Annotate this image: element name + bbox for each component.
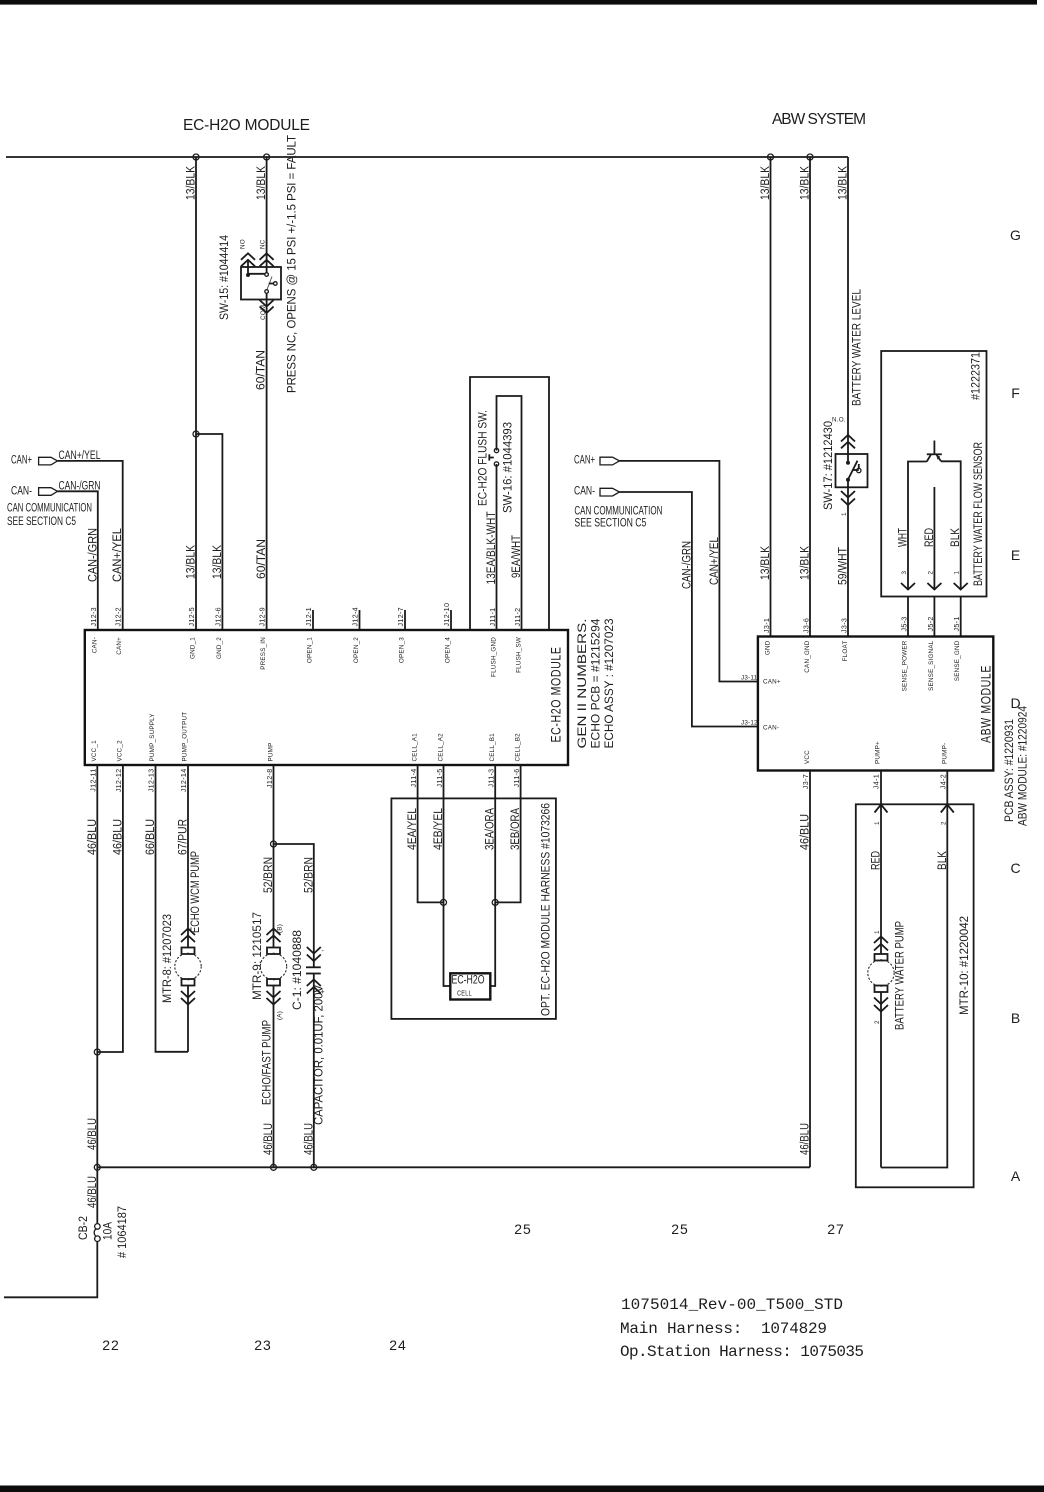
svg-text:CAN-: CAN- bbox=[763, 725, 779, 732]
svg-text:SW-16: #1044393: SW-16: #1044393 bbox=[503, 422, 515, 513]
SW-15 blade bbox=[267, 277, 272, 290]
svg-text:CAN COMMUNICATION: CAN COMMUNICATION bbox=[574, 506, 662, 518]
pump connector arrows bbox=[875, 805, 888, 813]
svg-text:EC-H2O: EC-H2O bbox=[452, 975, 485, 987]
svg-text:PCB ASSY: #1220931: PCB ASSY: #1220931 bbox=[1004, 719, 1016, 822]
wire 59/WHT SW-17 to ABW FLOAT bbox=[847, 487, 849, 636]
SW-15 upper contact circle bbox=[266, 267, 268, 273]
svg-text:52/BRN: 52/BRN bbox=[263, 857, 275, 893]
svg-text:3: 3 bbox=[901, 571, 908, 575]
svg-text:FLOAT: FLOAT bbox=[842, 641, 849, 662]
svg-text:BATTERY WATER PUMP: BATTERY WATER PUMP bbox=[895, 921, 907, 1030]
svg-text:27: 27 bbox=[827, 1221, 845, 1237]
wire CELL_A1 4EA/YEL bbox=[418, 765, 444, 902]
wire 60/TAN PRESS_IN (x=266.6) rail to SW-15 bbox=[266, 157, 268, 267]
svg-text:1075014_Rev-00_T500_STD: 1075014_Rev-00_T500_STD bbox=[621, 1296, 843, 1314]
motor MTR-10 symbol bbox=[875, 954, 888, 961]
svg-text:J4-2: J4-2 bbox=[938, 774, 947, 789]
svg-text:VCC_2: VCC_2 bbox=[117, 740, 124, 762]
stub wire pin J12-4 bbox=[359, 610, 361, 630]
svg-text:J12-10: J12-10 bbox=[442, 603, 451, 627]
svg-text:ECHO/FAST PUMP: ECHO/FAST PUMP bbox=[262, 1020, 274, 1105]
SW-17 lower chevrons bbox=[841, 491, 855, 505]
EC-H2O module box bbox=[85, 630, 568, 765]
svg-text:SENSE_POWER: SENSE_POWER bbox=[902, 640, 909, 691]
svg-text:46/BLU: 46/BLU bbox=[303, 1123, 315, 1155]
svg-text:1: 1 bbox=[874, 821, 881, 825]
svg-text:CAN-/GRN: CAN-/GRN bbox=[87, 528, 99, 582]
svg-text:1: 1 bbox=[841, 512, 848, 516]
wire 13/BLK CAN_GND to ABW (x=810) bbox=[809, 157, 811, 637]
svg-text:46/BLU: 46/BLU bbox=[800, 814, 812, 850]
svg-text:SEE SECTION C5: SEE SECTION C5 bbox=[574, 518, 646, 530]
motor MTR-9 symbol bbox=[267, 948, 280, 955]
motor MTR-9 lower chevrons bbox=[267, 991, 281, 1005]
svg-text:SENSE_SIGNAL: SENSE_SIGNAL bbox=[928, 640, 935, 691]
wire rail down to CB-2 bbox=[96, 1167, 98, 1223]
svg-text:CAN_GND: CAN_GND bbox=[804, 640, 811, 672]
svg-text:BLK: BLK bbox=[937, 851, 949, 870]
wire VCC_2 46/BLU joins VCC_1 bbox=[97, 765, 123, 1052]
svg-text:13/BLK: 13/BLK bbox=[186, 545, 198, 579]
svg-text:NO: NO bbox=[240, 239, 247, 249]
SW-17 contacts and blade bbox=[847, 454, 849, 463]
wire CAN+/YEL left bbox=[58, 461, 123, 630]
sensor output arrows bbox=[901, 583, 915, 590]
svg-text:C: C bbox=[1010, 860, 1021, 876]
svg-text:13/BLK: 13/BLK bbox=[760, 166, 772, 200]
wire MTR-8 bottom to 66/BLU bbox=[187, 986, 189, 1052]
svg-text:3EB/ORA: 3EB/ORA bbox=[510, 808, 522, 850]
svg-text:PRESS_IN: PRESS_IN bbox=[260, 637, 267, 670]
svg-text:VCC_1: VCC_1 bbox=[91, 740, 98, 762]
svg-text:CELL: CELL bbox=[457, 989, 472, 998]
svg-text:23: 23 bbox=[254, 1337, 272, 1353]
wire CELL_B2 3EB/ORA bbox=[495, 765, 520, 902]
svg-text:CELL_A1: CELL_A1 bbox=[412, 733, 419, 762]
svg-text:CB-2: CB-2 bbox=[78, 1216, 90, 1240]
svg-text:4EB/YEL: 4EB/YEL bbox=[433, 807, 445, 850]
svg-text:2: 2 bbox=[874, 1020, 881, 1024]
wire capacitor branch 52/BRN bbox=[274, 844, 314, 967]
svg-text:(A): (A) bbox=[277, 1011, 284, 1020]
svg-text:#1222371: #1222371 bbox=[971, 352, 983, 400]
circuit breaker CB-2 bbox=[95, 1224, 101, 1230]
svg-text:PRESS NC, OPENS @ 15 PSI +/-1.: PRESS NC, OPENS @ 15 PSI +/-1.5 PSI = FA… bbox=[287, 135, 299, 393]
wire loop top to FLUSH_SW 9EA/WHT bbox=[497, 396, 522, 630]
svg-text:CELL_A2: CELL_A2 bbox=[438, 733, 445, 762]
node: rail junction at x=196 bbox=[193, 154, 199, 160]
svg-text:J12-2: J12-2 bbox=[114, 607, 123, 626]
svg-text:RED: RED bbox=[924, 528, 936, 547]
svg-text:GND_2: GND_2 bbox=[216, 637, 223, 659]
svg-text:(B): (B) bbox=[277, 924, 284, 933]
wire 60/TAN below SW-15 to module bbox=[266, 293, 268, 630]
svg-text:ECHO WCM PUMP: ECHO WCM PUMP bbox=[190, 851, 202, 933]
svg-text:J12-3: J12-3 bbox=[89, 607, 98, 626]
wire PUMP_SUPPLY 66/BLU to MTR-8 return bbox=[156, 765, 189, 1052]
battery water pump harness box bbox=[856, 804, 974, 1187]
svg-text:PUMP_OUTPUT: PUMP_OUTPUT bbox=[182, 712, 189, 762]
svg-text:J12-9: J12-9 bbox=[258, 607, 267, 626]
motor MTR-9 upper chevrons bbox=[267, 929, 281, 943]
svg-text:25: 25 bbox=[514, 1221, 532, 1237]
svg-text:J5-3: J5-3 bbox=[900, 616, 909, 631]
svg-text:Op.Station Harness: 1075035: Op.Station Harness: 1075035 bbox=[620, 1343, 864, 1361]
svg-text:13/BLK: 13/BLK bbox=[186, 166, 198, 200]
svg-text:60/TAN: 60/TAN bbox=[256, 350, 268, 390]
motor MTR-10 upper chevrons bbox=[874, 937, 888, 951]
svg-text:13/BLK: 13/BLK bbox=[800, 546, 812, 580]
motor MTR-8 upper chevrons bbox=[181, 929, 195, 943]
motor MTR-8 symbol bbox=[182, 948, 195, 955]
sensor internal wires WHT RED BLK bbox=[908, 462, 927, 591]
svg-text:67/PUR: 67/PUR bbox=[178, 819, 190, 855]
svg-text:VCC: VCC bbox=[804, 750, 811, 764]
node: junction VCC wires bbox=[94, 1049, 100, 1055]
node: rail junction at x=266.6 bbox=[264, 154, 270, 160]
wire CAN+/YEL to ABW J3-11 bbox=[620, 461, 758, 682]
pressure switch SW-15 body bbox=[241, 267, 281, 300]
svg-text:EC-H2O MODULE: EC-H2O MODULE bbox=[548, 647, 564, 743]
svg-text:J12-12: J12-12 bbox=[114, 769, 123, 793]
svg-text:G: G bbox=[1010, 227, 1022, 243]
svg-text:CAN-: CAN- bbox=[91, 637, 98, 653]
svg-text:J3-11: J3-11 bbox=[741, 675, 758, 682]
svg-text:1: 1 bbox=[954, 571, 961, 575]
svg-text:46/BLU: 46/BLU bbox=[112, 819, 124, 855]
svg-text:3EA/ORA: 3EA/ORA bbox=[485, 808, 497, 850]
svg-text:E: E bbox=[1011, 547, 1021, 563]
capacitor C-1 upper chevrons bbox=[307, 947, 321, 961]
svg-text:CELL_B1: CELL_B1 bbox=[489, 733, 496, 762]
svg-text:WHT: WHT bbox=[898, 528, 910, 547]
svg-text:FLUSH_SW: FLUSH_SW bbox=[516, 637, 523, 673]
svg-text:J3-3: J3-3 bbox=[840, 618, 849, 633]
stub wire pin J12-10 bbox=[450, 610, 452, 630]
svg-text:Main Harness: 1074829: Main Harness: 1074829 bbox=[620, 1320, 827, 1338]
wire branch GND_2 from junction to x=222.4 down to module bbox=[196, 434, 222, 630]
svg-text:J3-1: J3-1 bbox=[762, 618, 771, 633]
svg-text:PUMP: PUMP bbox=[268, 743, 275, 762]
svg-text:CAN COMMUNICATION: CAN COMMUNICATION bbox=[7, 503, 92, 515]
SW-15 NO terminal stub and dot bbox=[247, 261, 249, 276]
wire CELL_A2 4EB/YEL to cell bbox=[444, 765, 451, 986]
svg-text:FLUSH_GND: FLUSH_GND bbox=[491, 637, 498, 677]
float switch SW-17 body bbox=[836, 454, 868, 487]
svg-text:J12-11: J12-11 bbox=[88, 769, 97, 792]
svg-text:J12-7: J12-7 bbox=[396, 607, 405, 626]
svg-text:CAN-/GRN: CAN-/GRN bbox=[59, 480, 101, 492]
svg-text:66/BLU: 66/BLU bbox=[145, 819, 157, 855]
svg-text:OPEN_1: OPEN_1 bbox=[307, 637, 314, 663]
svg-text:CAN+: CAN+ bbox=[574, 455, 595, 467]
svg-text:J12-13: J12-13 bbox=[147, 769, 156, 793]
svg-text:EC-H2O MODULE: EC-H2O MODULE bbox=[183, 117, 310, 134]
svg-text:46/BLU: 46/BLU bbox=[800, 1123, 812, 1155]
svg-text:J3-7: J3-7 bbox=[801, 774, 810, 789]
wires sensor to ABW module bbox=[907, 597, 909, 637]
pressure switch SW-15 connector chevrons NC side bbox=[260, 253, 274, 266]
svg-text:B: B bbox=[1011, 1010, 1021, 1026]
svg-text:GND: GND bbox=[765, 640, 772, 655]
svg-text:ABW SYSTEM: ABW SYSTEM bbox=[772, 111, 866, 128]
wire VCC_1 46/BLU down to bottom rail bbox=[96, 765, 98, 1167]
wire PUMP- BLK return bbox=[881, 771, 947, 1168]
svg-text:NC: NC bbox=[260, 239, 267, 249]
svg-text:CAN+/YEL: CAN+/YEL bbox=[59, 450, 101, 462]
SW-16 pushbutton actuator bbox=[488, 454, 490, 460]
node: rail junction at x=770.5 bbox=[768, 154, 774, 160]
svg-text:13/BLK: 13/BLK bbox=[800, 166, 812, 200]
node: junction 4E wires bbox=[441, 899, 447, 905]
wire PUMP 52/BRN down through MTR-9 to rail bbox=[273, 765, 275, 948]
svg-text:BATTERY WATER LEVEL: BATTERY WATER LEVEL bbox=[852, 288, 864, 406]
wire 13/BLK rail corner down to SW-17 bbox=[847, 157, 849, 454]
svg-text:9EA/WHT: 9EA/WHT bbox=[511, 535, 523, 578]
SW-15 actuator bbox=[269, 283, 274, 285]
capacitor C-1 lower chevrons bbox=[307, 980, 321, 994]
svg-text:2: 2 bbox=[927, 571, 934, 575]
svg-text:CAN-/GRN: CAN-/GRN bbox=[681, 541, 693, 589]
svg-text:J3-12: J3-12 bbox=[741, 720, 758, 727]
optional EC-H2O module harness box bbox=[391, 798, 556, 1019]
svg-text:ABW MODULE: ABW MODULE bbox=[978, 665, 994, 743]
svg-text:CAN-: CAN- bbox=[11, 486, 32, 498]
SW-15 lower contact circle bbox=[265, 290, 269, 294]
node: junction 3E wires bbox=[492, 899, 498, 905]
svg-text:OPEN_3: OPEN_3 bbox=[399, 637, 406, 663]
float switch SW-17 upper chevrons bbox=[841, 435, 855, 448]
svg-text:13/BLK: 13/BLK bbox=[256, 166, 268, 200]
svg-text:SENSE_GND: SENSE_GND bbox=[954, 640, 961, 681]
wire FLUSH_GND 13EA/BLK-WHT up to SW-16 bbox=[496, 464, 498, 630]
svg-text:ABW MODULE: #1220924: ABW MODULE: #1220924 bbox=[1018, 705, 1030, 826]
svg-text:13/BLK: 13/BLK bbox=[760, 546, 772, 580]
node: rail junction MTR-9 bbox=[271, 1164, 277, 1170]
svg-text:RED: RED bbox=[871, 851, 883, 870]
wire PUMP_OUTPUT 67/PUR to MTR-8 bbox=[187, 765, 189, 948]
svg-text:46/BLU: 46/BLU bbox=[87, 1176, 99, 1208]
wire 13/BLK GND to ABW (x=770.5) bbox=[770, 157, 772, 637]
svg-text:# 1064187: # 1064187 bbox=[117, 1206, 129, 1258]
svg-text:4EA/YEL: 4EA/YEL bbox=[407, 807, 419, 850]
SW-15 NO link to common bbox=[248, 273, 265, 275]
svg-text:CAN-: CAN- bbox=[574, 486, 595, 498]
svg-text:J12-14: J12-14 bbox=[179, 769, 188, 793]
svg-text:J12-4: J12-4 bbox=[351, 607, 360, 626]
wire PUMP+ RED to MTR-10 bbox=[880, 771, 882, 955]
ABW module box bbox=[758, 637, 993, 771]
node: junction to capacitor branch bbox=[271, 841, 277, 847]
svg-text:CELL_B2: CELL_B2 bbox=[515, 733, 522, 762]
svg-text:GEN II NUMBERS.: GEN II NUMBERS. bbox=[577, 619, 589, 749]
svg-text:J3-6: J3-6 bbox=[802, 618, 811, 633]
svg-text:13/BLK: 13/BLK bbox=[838, 166, 850, 200]
svg-text:CAPACITOR, 0.01UF, 200V: CAPACITOR, 0.01UF, 200V bbox=[314, 985, 326, 1125]
svg-text:F: F bbox=[1011, 385, 1021, 401]
svg-text:A: A bbox=[1011, 1168, 1021, 1184]
svg-text:OPEN_4: OPEN_4 bbox=[445, 637, 452, 663]
svg-text:SEE SECTION C5: SEE SECTION C5 bbox=[7, 516, 76, 528]
svg-text:J4-1: J4-1 bbox=[872, 774, 881, 789]
wire bottom 46/BLU return rail bbox=[97, 1166, 810, 1168]
svg-text:-: - bbox=[322, 946, 325, 955]
svg-text:60/TAN: 60/TAN bbox=[256, 539, 268, 579]
wire capacitor to rail 46/BLU bbox=[313, 974, 315, 1168]
svg-text:CAN+: CAN+ bbox=[116, 637, 123, 655]
capacitor C-1 plates bbox=[306, 966, 321, 968]
svg-text:SW-17: #1212430: SW-17: #1212430 bbox=[823, 421, 835, 510]
node: rail corner junction bbox=[94, 1164, 100, 1170]
svg-text:BLK: BLK bbox=[950, 528, 962, 547]
svg-text:25: 25 bbox=[671, 1221, 689, 1237]
svg-text:J12-6: J12-6 bbox=[213, 607, 222, 626]
svg-text:J12-1: J12-1 bbox=[304, 607, 313, 626]
svg-text:10A: 10A bbox=[103, 1222, 115, 1240]
svg-text:SW-15: #1044414: SW-15: #1044414 bbox=[219, 234, 231, 320]
svg-text:J12-5: J12-5 bbox=[187, 607, 196, 626]
svg-text:MTR-10: #1220042: MTR-10: #1220042 bbox=[959, 916, 971, 1015]
svg-text:CAN+: CAN+ bbox=[11, 455, 32, 467]
flush switch harness box bbox=[470, 377, 549, 630]
svg-text:PUMP_SUPPLY: PUMP_SUPPLY bbox=[149, 713, 156, 762]
stub wire pin J12-1 bbox=[312, 610, 314, 630]
svg-text:1: 1 bbox=[874, 930, 881, 934]
battery water flow sensor box bbox=[881, 351, 986, 597]
bottom border bar bbox=[0, 1486, 1044, 1492]
svg-text:C-1: #1040888: C-1: #1040888 bbox=[292, 930, 304, 1010]
top border bar bbox=[0, 0, 1037, 5]
svg-text:BATTERY WATER FLOW SENSOR: BATTERY WATER FLOW SENSOR bbox=[973, 442, 985, 586]
node: rail junction capacitor bbox=[311, 1164, 317, 1170]
svg-text:CAN+/YEL: CAN+/YEL bbox=[112, 527, 124, 582]
svg-text:GND_1: GND_1 bbox=[190, 637, 197, 659]
pressure switch SW-15 connector chevrons NO side bbox=[241, 253, 255, 266]
svg-text:J5-2: J5-2 bbox=[926, 616, 935, 631]
svg-text:PUMP-: PUMP- bbox=[941, 743, 948, 764]
flush switch SW-16 contacts bbox=[494, 448, 498, 452]
svg-text:CAN+: CAN+ bbox=[763, 679, 781, 686]
svg-text:46/BLU: 46/BLU bbox=[87, 1118, 99, 1150]
svg-text:EC-H2O FLUSH SW.: EC-H2O FLUSH SW. bbox=[478, 410, 490, 506]
svg-text:J5-1: J5-1 bbox=[952, 616, 961, 631]
wire CAN-/GRN to ABW J3-12 bbox=[620, 492, 758, 727]
motor MTR-8 lower chevrons bbox=[181, 991, 195, 1005]
svg-text:59/WHT: 59/WHT bbox=[838, 547, 850, 585]
svg-text:PUMP+: PUMP+ bbox=[875, 741, 882, 764]
svg-text:OPEN_2: OPEN_2 bbox=[353, 637, 360, 663]
wire CB-2 to page edge bbox=[4, 1242, 97, 1298]
svg-text:CAN+/YEL: CAN+/YEL bbox=[709, 536, 721, 585]
SW-15 lower chevrons COM side bbox=[260, 300, 274, 313]
svg-text:OPT. EC-H2O MODULE HARNESS #10: OPT. EC-H2O MODULE HARNESS #1073266 bbox=[541, 803, 553, 1016]
svg-text:13EA/BLK-WHT: 13EA/BLK-WHT bbox=[486, 512, 498, 585]
wire 13/BLK GND_1 (x=196) rail to module bbox=[195, 157, 197, 630]
wire CELL_B1 3EA/ORA to cell bbox=[490, 765, 495, 986]
svg-text:52/BRN: 52/BRN bbox=[303, 857, 315, 893]
EC-H2O CELL box bbox=[450, 973, 490, 999]
svg-text:22: 22 bbox=[102, 1337, 120, 1353]
svg-text:MTR-8: #1207023: MTR-8: #1207023 bbox=[162, 914, 174, 1003]
svg-text:46/BLU: 46/BLU bbox=[87, 819, 99, 855]
wire ABW VCC 46/BLU to bottom rail bbox=[809, 771, 811, 1168]
svg-text:13/BLK: 13/BLK bbox=[212, 545, 224, 579]
node: rail junction at x=810 bbox=[807, 154, 813, 160]
svg-text:ECHO ASSY : #1207023: ECHO ASSY : #1207023 bbox=[604, 619, 616, 749]
wire MTR-10 bottom bbox=[880, 992, 882, 1168]
svg-text:2: 2 bbox=[940, 821, 947, 825]
wire: top 13/BLK power rail bbox=[6, 156, 848, 158]
motor MTR-10 lower chevrons bbox=[874, 998, 888, 1012]
svg-text:24: 24 bbox=[389, 1337, 407, 1353]
node: junction at (196,434) bbox=[193, 431, 199, 437]
transistor open-collector output symbol bbox=[933, 441, 935, 455]
svg-text:MTR-9: 1210517: MTR-9: 1210517 bbox=[252, 912, 264, 1000]
svg-text:46/BLU: 46/BLU bbox=[263, 1123, 275, 1155]
svg-text:ECHO PCB = #1215294: ECHO PCB = #1215294 bbox=[591, 618, 603, 749]
stub wire pin J12-7 bbox=[404, 610, 406, 630]
wire CAN-/GRN left bbox=[58, 491, 98, 630]
